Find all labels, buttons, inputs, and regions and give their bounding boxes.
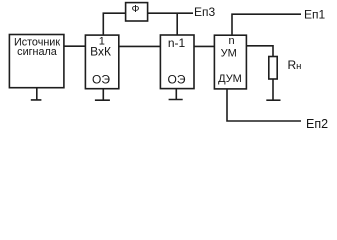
svg-text:сигнала: сигнала xyxy=(17,46,57,58)
block A3 output stage n УМ/ДУМ xyxy=(214,35,246,89)
ground under n-1 stage xyxy=(169,89,183,100)
svg-text:Eп1: Eп1 xyxy=(304,8,326,22)
block U1 filter Ф xyxy=(126,3,148,21)
svg-text:n-1: n-1 xyxy=(168,36,186,50)
svg-text:ВхК: ВхК xyxy=(90,45,111,59)
wire ДУМ bottom to Eп2 xyxy=(227,89,301,121)
block G1 source "Источник сигнала" xyxy=(9,35,64,88)
ground under ВхК stage xyxy=(95,89,110,101)
svg-text:Eп3: Eп3 xyxy=(194,5,216,19)
resistor bottom lead xyxy=(272,79,274,100)
wire УМ top to Eп1 xyxy=(232,14,301,35)
resistor Rн body xyxy=(269,57,277,80)
svg-text:Eп2: Eп2 xyxy=(306,117,328,131)
wire Ф output left down to ВхК top xyxy=(103,13,125,35)
block A2 stage n-1/ОЭ xyxy=(160,35,194,89)
wire n-1 to n xyxy=(194,45,214,47)
svg-text:ОЭ: ОЭ xyxy=(168,73,186,87)
block A1 input stage ВхК/ОЭ xyxy=(85,35,118,89)
wire branch down to n-1 top xyxy=(176,13,178,35)
ground under Rн xyxy=(266,99,280,101)
wire source to ВхК xyxy=(64,45,86,47)
svg-text:Ф: Ф xyxy=(132,3,140,15)
svg-text:ДУМ: ДУМ xyxy=(218,73,242,85)
ground under source xyxy=(31,88,42,100)
wire Ф right to Eп3 xyxy=(148,12,193,14)
wire УМ right to resistor Rн xyxy=(246,46,273,57)
wire ВхК to n-1 xyxy=(119,45,161,47)
svg-text:УМ: УМ xyxy=(221,47,237,59)
svg-text:ОЭ: ОЭ xyxy=(92,73,110,87)
svg-text:n: n xyxy=(228,35,234,47)
svg-text:Rн: Rн xyxy=(288,58,302,72)
